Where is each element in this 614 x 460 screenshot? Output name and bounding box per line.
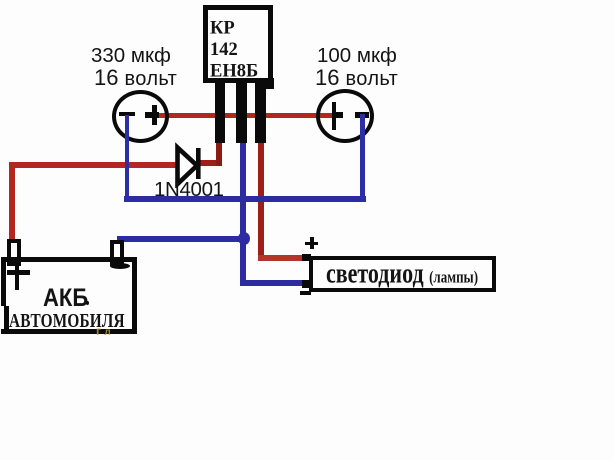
capacitor C1 value label (91, 44, 171, 68)
capacitor C2 plus arm (336, 112, 343, 118)
wire blue ground rail horizontal C1- to C2- (124, 196, 366, 202)
diode D1 label 1N4001 (154, 178, 224, 202)
LED box label светодиод (лампы) (326, 257, 478, 290)
wire blue battery- horizontal (117, 236, 247, 242)
node ground junction dot (238, 232, 250, 245)
wire red diode cathode to regulator pin1 (200, 160, 222, 166)
stray yellow text artifact below battery (96, 324, 111, 338)
wire blue C1- down (125, 115, 130, 202)
LED minus label (300, 291, 311, 295)
LED box input tab - (302, 280, 311, 288)
wire red regulator pin3 down (258, 140, 264, 261)
capacitor C2 100uF body (316, 89, 374, 143)
battery B1 body АКБ (1, 257, 137, 334)
battery label АКБ trailing dot (86, 301, 89, 305)
capacitor C2 minus tick (355, 112, 369, 118)
wire blue regulator pin2 (GND) down (240, 140, 246, 286)
capacitor C1 minus tick (119, 112, 135, 116)
voltage regulator U1 КР142ЕН8Б body (203, 5, 273, 83)
regulator bottom-right step (261, 78, 274, 89)
regulator pin 3 (255, 83, 266, 143)
diode D1 1N4001 (170, 142, 206, 188)
wire red battery+ horizontal to diode (9, 162, 178, 168)
LED box input tab + (302, 254, 311, 261)
wire red battery+ vertical (9, 162, 15, 243)
battery box bottom-left jog (0, 306, 5, 329)
LED plus label (310, 237, 314, 249)
capacitor C2 plate stroke (332, 102, 336, 130)
regulator pin 2 (236, 83, 247, 143)
capacitor C1 330uF body (112, 90, 169, 143)
battery minus symbol (110, 263, 130, 269)
battery terminal post - (110, 240, 124, 266)
battery label АКБ (43, 283, 88, 313)
regulator pin 1 (215, 83, 225, 143)
LED load box (309, 256, 496, 292)
regulator bottom edge left part (203, 78, 254, 83)
wire red to LED+ (258, 255, 309, 261)
wire blue to LED- (240, 280, 304, 286)
battery label АВТОМОБИЛЯ (9, 310, 125, 333)
wire red V+ top rail (C1+ to C2+) (155, 113, 333, 118)
regulator label КР 142 ЕН8Б (210, 18, 258, 83)
capacitor C2 value label (317, 44, 397, 68)
capacitor C1 plus sign (152, 105, 157, 125)
battery plus symbol (15, 262, 19, 290)
wire blue C2- down (360, 114, 365, 202)
battery terminal post + (7, 239, 21, 266)
